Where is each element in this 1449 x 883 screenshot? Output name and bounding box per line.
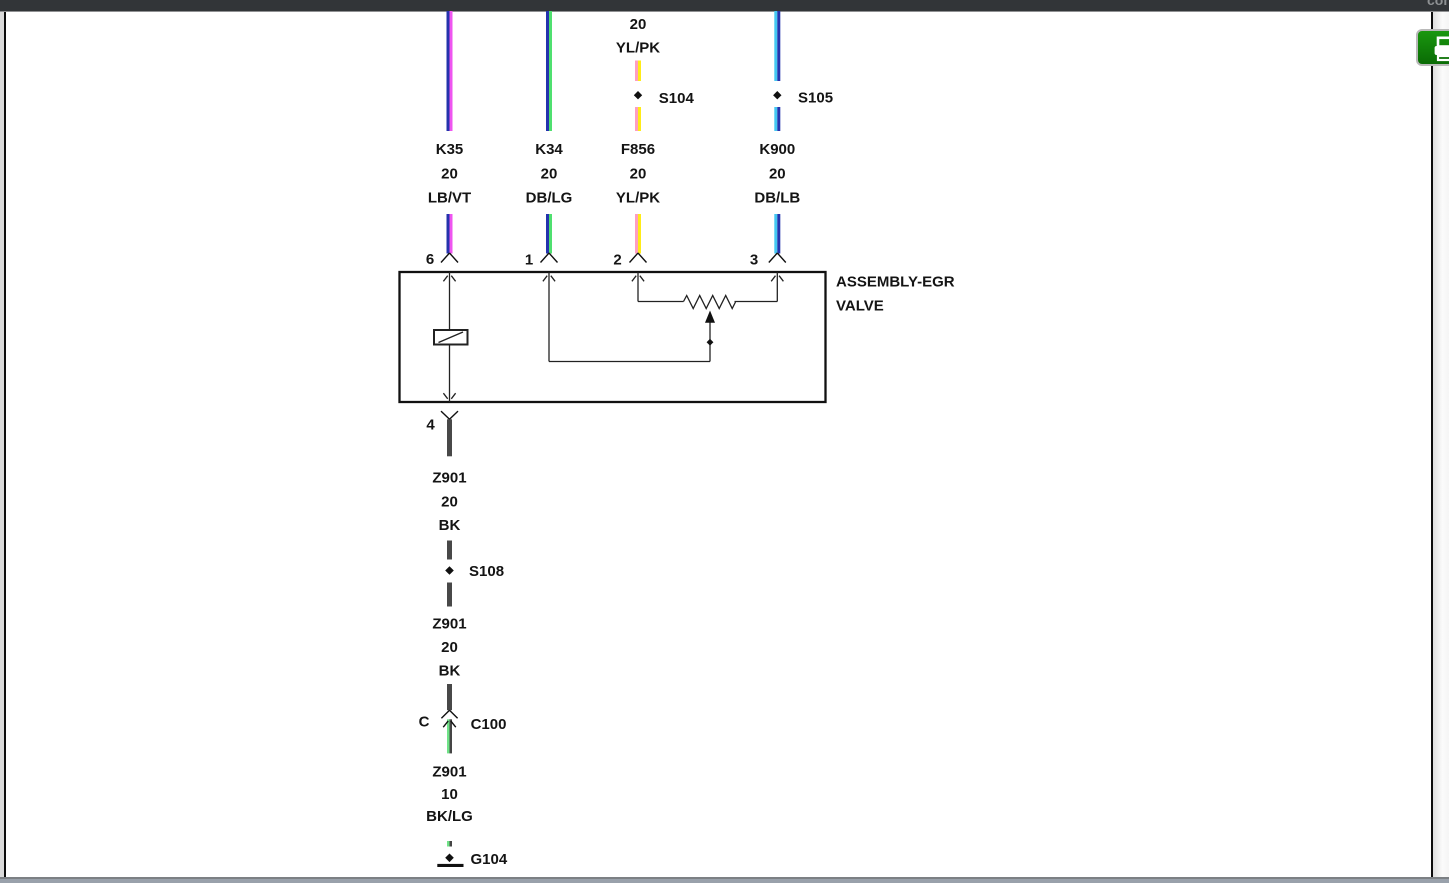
svg-text:K35: K35: [436, 141, 464, 158]
svg-text:G104: G104: [471, 851, 508, 868]
svg-text:ASSEMBLY-EGR: ASSEMBLY-EGR: [836, 274, 955, 291]
svg-text:DB/LG: DB/LG: [526, 190, 573, 207]
svg-text:6: 6: [426, 251, 434, 268]
svg-text:BK: BK: [439, 517, 461, 534]
svg-text:Z901: Z901: [432, 615, 466, 632]
svg-text:4: 4: [426, 416, 435, 433]
svg-text:K34: K34: [535, 141, 563, 158]
svg-text:YL/PK: YL/PK: [616, 40, 660, 57]
svg-text:K900: K900: [759, 141, 795, 158]
svg-text:S104: S104: [659, 90, 695, 107]
svg-text:YL/PK: YL/PK: [616, 190, 660, 207]
svg-text:20: 20: [441, 639, 458, 656]
svg-text:2: 2: [613, 251, 621, 268]
svg-text:VALVE: VALVE: [836, 298, 884, 315]
svg-text:BK: BK: [439, 662, 461, 679]
svg-text:20: 20: [441, 166, 458, 183]
svg-text:C: C: [419, 713, 430, 730]
svg-text:S108: S108: [469, 563, 504, 580]
svg-text:1: 1: [525, 251, 533, 268]
svg-text:S105: S105: [798, 90, 833, 107]
svg-text:Z901: Z901: [432, 469, 466, 486]
svg-text:DB/LB: DB/LB: [754, 190, 800, 207]
svg-text:F856: F856: [621, 141, 655, 158]
svg-text:20: 20: [630, 16, 647, 33]
svg-text:20: 20: [441, 493, 458, 510]
svg-text:20: 20: [630, 166, 647, 183]
svg-text:20: 20: [541, 166, 558, 183]
svg-text:10: 10: [441, 786, 458, 803]
svg-text:3: 3: [750, 251, 758, 268]
svg-text:BK/LG: BK/LG: [426, 808, 473, 825]
svg-text:Z901: Z901: [432, 763, 466, 780]
svg-text:C100: C100: [471, 716, 507, 733]
svg-text:20: 20: [769, 166, 786, 183]
svg-text:LB/VT: LB/VT: [428, 190, 471, 207]
